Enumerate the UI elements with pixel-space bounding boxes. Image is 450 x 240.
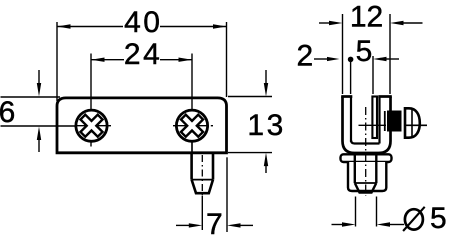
6 dim bottom reference line / screw axis [1,125,107,127]
svg-text:40: 40 [124,6,162,39]
slot bottom inner line [351,140,380,144]
U-body outer outline (side view) [343,97,391,154]
13 dim bottom arrow [265,160,267,173]
screw head left circle [76,110,107,141]
5 dim dot (small-space marker) [348,57,354,63]
screw centerline vertical right (24 ext) [191,54,193,154]
extension line right of plate (40 dim, x=226.5) [226,22,228,97]
svg-text:7: 7 [206,208,223,240]
pin shoulder line [192,179,213,181]
12 dim right arrow (outside pointing left) [390,21,404,25]
svg-text:13: 13 [247,109,285,142]
clamp screw head [405,108,420,137]
side view vertical centerline [365,107,367,196]
diameter 5 right extension [376,197,378,227]
left wall top cap [341,95,352,98]
screw head cross horizontal / axis [405,124,427,126]
5 dim dot stem [350,60,352,94]
screw right centerline dash right [211,125,213,127]
6 dim bottom arrow [38,140,40,152]
pin core right edge [375,154,377,183]
screw left centerline dash right [109,125,112,127]
pin centerline dash-dot below screw [201,155,203,196]
vertical line through right screw down across plate (merges w/ pin edge) [191,141,193,154]
diameter 5 left arrow [332,224,345,226]
pin chamfer and tip [192,180,213,194]
pin (front view) left side [192,154,213,180]
dimension 40 line [57,26,123,28]
5 dim right extension [372,56,374,94]
svg-text:6: 6 [0,96,15,129]
diameter 5 right arrow [377,222,391,226]
dimension 24 line [91,59,124,61]
svg-text:5: 5 [430,202,447,235]
pin core shoulder line [355,182,377,184]
7 dim right extension [226,157,228,232]
7 dim left arrow [176,224,190,226]
2 dim arrow [314,58,329,60]
arrow 24 right [179,58,193,62]
pin core left edge [354,154,356,183]
6 dim top arrow [38,70,40,85]
6 dim top reference line [1,96,61,98]
13 dim top reference line [228,96,272,98]
svg-text:2: 2 [296,39,313,72]
screw right horizontal centerline inside circle [177,125,207,127]
extension line left of plate (40 dim, x=57) [56,22,58,101]
screw right horizontal stub left [173,125,177,127]
7 dim right arrow [227,223,241,227]
svg-text:12: 12 [350,1,383,34]
arrow 24 left [91,58,105,62]
left wall inner edge [350,97,352,143]
svg-text:5: 5 [356,35,373,68]
screw left phillips cross [74,108,109,143]
screw head cross vertical [411,108,413,137]
clamp screw shaft (black) [384,111,386,131]
clamp screw axis line [359,124,387,126]
diameter 5 left extension [355,197,357,227]
svg-text:24: 24 [124,38,162,71]
arrow 40 right [213,24,227,28]
arrow 40 left [57,24,71,28]
pin core chamfer tip [355,183,377,193]
screw centerline vertical left (24 ext) [90,54,92,147]
base flange [341,154,392,162]
12 dim extension left (x=342.5) [342,14,344,94]
diameter symbol [405,209,423,229]
screw head right circle [176,110,207,141]
13 dim top arrow [265,70,267,85]
outer wall top cap [378,95,392,98]
screw left horizontal centerline inside circle [76,125,106,127]
12 dim extension right (x=390) [389,14,391,94]
13 dim bottom reference line [228,152,272,154]
plate outline (front view body) [57,98,227,153]
5 dim right arrow [373,57,387,61]
12 dim left arrow (outside pointing right) [319,22,331,24]
outer wall inner edge [378,97,380,144]
7 dim left extension (pin centerline extended) [201,196,203,230]
expansion sleeve (cup below flange) [348,162,386,191]
screw right phillips cross [175,108,210,143]
pressure pad (thin plate in slot) [372,97,377,139]
